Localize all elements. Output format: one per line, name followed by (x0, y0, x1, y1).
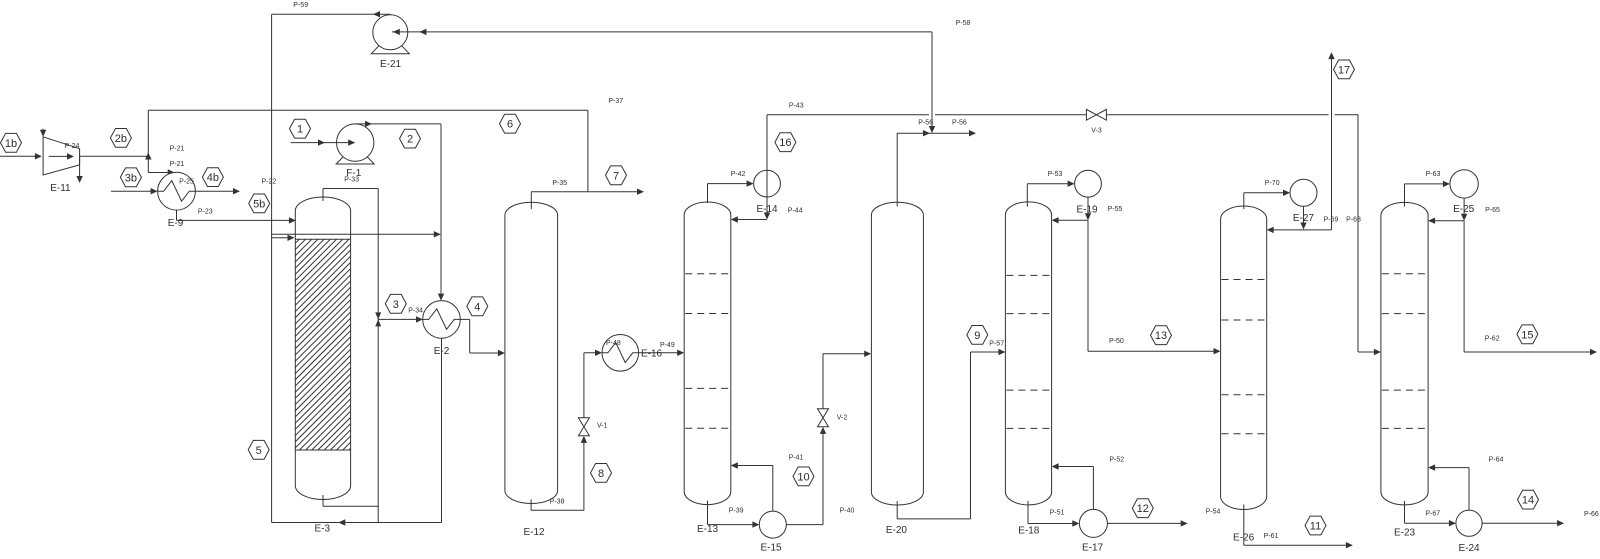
svg-text:3: 3 (393, 299, 399, 311)
svg-text:P-69: P-69 (1324, 217, 1339, 224)
svg-text:1: 1 (297, 124, 303, 136)
svg-text:P-37: P-37 (608, 98, 623, 105)
svg-text:P-39: P-39 (729, 507, 744, 514)
svg-text:14: 14 (1522, 495, 1534, 507)
svg-text:P-68: P-68 (1346, 216, 1361, 223)
svg-text:P-62: P-62 (1485, 336, 1500, 343)
svg-text:P-43: P-43 (789, 102, 804, 109)
svg-text:P-33: P-33 (344, 176, 359, 183)
svg-text:E-14: E-14 (756, 204, 778, 215)
svg-text:10: 10 (797, 471, 809, 483)
svg-text:E-13: E-13 (697, 524, 719, 535)
svg-text:P-41: P-41 (789, 454, 804, 461)
svg-text:P-22: P-22 (262, 179, 277, 186)
svg-text:P-54: P-54 (1206, 509, 1221, 516)
svg-text:P-25: P-25 (179, 179, 194, 186)
svg-text:P-23: P-23 (198, 208, 213, 215)
svg-text:P-52: P-52 (1109, 456, 1124, 463)
svg-text:3b: 3b (125, 172, 137, 184)
svg-text:E-25: E-25 (1453, 204, 1475, 215)
svg-text:12: 12 (1137, 503, 1149, 515)
svg-text:P-55: P-55 (1108, 206, 1123, 213)
svg-text:7: 7 (613, 170, 619, 182)
svg-text:E-12: E-12 (523, 527, 545, 538)
svg-text:P-42: P-42 (731, 171, 746, 178)
svg-text:15: 15 (1521, 329, 1533, 341)
svg-text:P-56: P-56 (952, 119, 967, 126)
svg-text:P-64: P-64 (1489, 456, 1504, 463)
svg-text:E-24: E-24 (1458, 543, 1480, 554)
svg-text:2: 2 (407, 134, 413, 146)
svg-text:4: 4 (474, 301, 480, 313)
svg-text:P-53: P-53 (1048, 171, 1063, 178)
svg-text:P-24: P-24 (65, 143, 80, 150)
svg-text:P-58: P-58 (956, 20, 971, 27)
svg-text:4b: 4b (207, 172, 219, 184)
svg-text:P-65: P-65 (1485, 207, 1500, 214)
svg-text:17: 17 (1338, 64, 1350, 76)
svg-text:P-48: P-48 (606, 340, 621, 347)
svg-text:P-21: P-21 (170, 161, 185, 168)
svg-text:11: 11 (1310, 521, 1321, 533)
svg-text:V-2: V-2 (837, 415, 848, 422)
svg-text:8: 8 (598, 468, 604, 480)
svg-text:P-35: P-35 (552, 180, 567, 187)
svg-text:E-11: E-11 (50, 183, 71, 194)
svg-text:E-18: E-18 (1018, 526, 1040, 537)
svg-text:V-3: V-3 (1091, 127, 1102, 134)
svg-text:5b: 5b (253, 198, 265, 210)
svg-text:E-17: E-17 (1082, 543, 1104, 554)
svg-text:P-21: P-21 (170, 146, 185, 153)
svg-text:2b: 2b (115, 133, 127, 145)
svg-text:E-21: E-21 (380, 59, 402, 70)
svg-text:E-9: E-9 (168, 218, 184, 229)
svg-text:P-49: P-49 (660, 342, 675, 349)
svg-text:E-23: E-23 (1394, 528, 1416, 539)
svg-text:E-2: E-2 (434, 346, 450, 357)
svg-text:E-20: E-20 (886, 525, 908, 536)
svg-text:P-61: P-61 (1264, 533, 1279, 540)
svg-text:P-66: P-66 (1584, 511, 1599, 518)
svg-text:E-26: E-26 (1233, 533, 1255, 544)
svg-text:P-67: P-67 (1425, 511, 1440, 518)
svg-text:13: 13 (1155, 330, 1167, 342)
svg-text:P-56: P-56 (918, 119, 933, 126)
svg-text:6: 6 (507, 119, 513, 131)
svg-text:P-59: P-59 (293, 2, 308, 9)
svg-text:E-19: E-19 (1076, 205, 1098, 216)
svg-text:P-57: P-57 (989, 340, 1004, 347)
svg-text:E-27: E-27 (1293, 213, 1315, 224)
svg-text:P-34: P-34 (408, 307, 423, 314)
svg-text:P-50: P-50 (1109, 338, 1124, 345)
svg-text:5: 5 (256, 445, 262, 457)
svg-text:P-38: P-38 (550, 498, 565, 505)
svg-text:P-63: P-63 (1426, 171, 1441, 178)
svg-text:V-1: V-1 (597, 422, 608, 429)
svg-text:9: 9 (974, 330, 980, 342)
svg-text:E-16: E-16 (641, 349, 663, 360)
svg-text:E-3: E-3 (315, 524, 331, 535)
svg-text:1b: 1b (5, 138, 17, 150)
svg-text:P-40: P-40 (840, 508, 855, 515)
svg-text:E-15: E-15 (760, 543, 782, 554)
svg-text:P-70: P-70 (1265, 180, 1280, 187)
svg-text:P-44: P-44 (788, 208, 803, 215)
svg-text:P-51: P-51 (1050, 510, 1065, 517)
svg-text:16: 16 (779, 137, 791, 149)
